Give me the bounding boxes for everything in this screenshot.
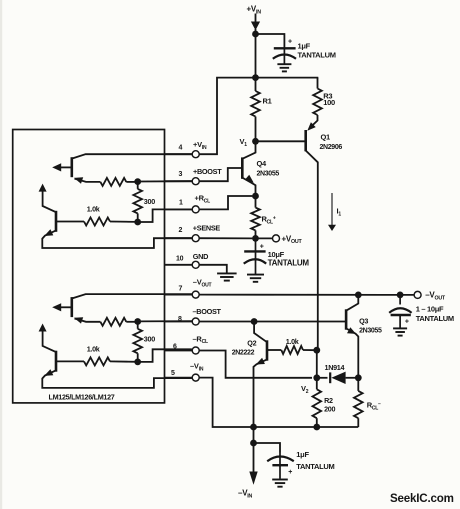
wire Q2 emitter down (254, 359, 268, 427)
junction -VIN cap branch (250, 440, 257, 447)
svg-text:200: 200 (324, 404, 335, 413)
label 300 (positive half) (144, 197, 155, 206)
svg-text:2N3055: 2N3055 (359, 327, 382, 334)
svg-text:SeekIC.com: SeekIC.com (390, 492, 454, 505)
transistor internal bar (positive half) (71, 157, 74, 177)
ground below C3 (393, 328, 407, 335)
ground below C1 (277, 64, 291, 71)
svg-text:Q2: Q2 (247, 339, 256, 348)
svg-text:1μF: 1μF (296, 450, 309, 459)
junction bottom rail Q2 emitter (250, 424, 257, 431)
junction V1 node (252, 138, 259, 145)
wire pin 2 to +VOUT node (200, 237, 253, 239)
transistor Q4 2N3055 base bar (241, 157, 244, 178)
label Q4 (257, 159, 268, 168)
svg-text:1.0k: 1.0k (87, 344, 100, 353)
svg-text:1μF: 1μF (298, 41, 311, 50)
junction 300 top (negative half) (134, 318, 141, 325)
label Q4 type 2N3055 (257, 171, 280, 178)
wire node to boost pin (positive half) (138, 180, 192, 182)
wire node to RCL pin (negative half) (138, 349, 192, 362)
label C1 TANTALUM (298, 50, 336, 59)
capacitor C4 1uF tantalum (267, 453, 294, 479)
svg-text:GND: GND (193, 252, 208, 261)
wire internal emitter with arrow (negative half) (74, 317, 100, 323)
wire node to boost pin (negative half) (138, 320, 192, 322)
wire +VIN lead (255, 14, 257, 23)
label C3 TANTALUM (416, 314, 454, 323)
svg-text:+SENSE: +SENSE (193, 224, 221, 233)
node +VIN supply label (247, 5, 262, 16)
svg-text:1: 1 (179, 200, 183, 207)
node V1 label (240, 137, 248, 148)
resistor 1.0k internal (negative half) (56, 357, 138, 365)
label 1N914 (325, 363, 345, 372)
arrow -VIN pointing down (249, 472, 257, 485)
junction Q2 collector on -BOOST line (251, 318, 258, 325)
svg-text:TANTALUM: TANTALUM (268, 258, 310, 267)
svg-text:1 – 10μF: 1 – 10μF (416, 305, 444, 314)
svg-text:2N3055: 2N3055 (257, 171, 280, 178)
svg-text:10: 10 (176, 255, 184, 262)
label C4 TANTALUM (296, 462, 334, 471)
junction V2 node (313, 374, 320, 381)
label -VOUT (425, 291, 446, 302)
wire pin 6 to V2 node (199, 351, 312, 378)
wire Q4 emitter (242, 178, 255, 196)
wire Q3 collector (346, 295, 358, 311)
wire main vertical to rail node (255, 34, 257, 78)
pin 1 +RCL (165, 194, 211, 213)
resistor internal emitter (negative half) (100, 318, 137, 326)
svg-text:100: 100 (323, 98, 335, 107)
wire pin 5 to bottom rail (199, 378, 358, 427)
arrow internal base (positive half) (52, 163, 72, 171)
capacitor C4 plus sign (288, 469, 292, 476)
wire pin 1 to Q4 emitter node (200, 196, 253, 209)
transistor internal bar (negative half) (71, 297, 74, 317)
svg-text:R1: R1 (263, 97, 272, 106)
svg-text:3: 3 (179, 171, 183, 178)
arrow Q4 emitter NPN (245, 175, 254, 183)
pin 2 +SENSE (165, 224, 221, 242)
terminal +VOUT circle (273, 235, 280, 242)
wire pin 10 to ground (200, 265, 227, 273)
wire rail node to pin 4 turn (200, 78, 256, 155)
wire pin 8 -BOOST to Q3 base (200, 321, 347, 323)
junction +VIN rail node (252, 74, 259, 81)
capacitor C2 plus sign (260, 244, 264, 251)
pin 8 -BOOST (165, 307, 222, 325)
pin 6 -RCL (165, 334, 208, 354)
wire +VIN arrow to top node (255, 29, 257, 34)
label Q3 (359, 317, 368, 326)
junction +VOUT node (252, 235, 259, 242)
junction Q1 collector 1.0k node (313, 347, 320, 354)
label Q1 type 2N2906 (320, 144, 343, 151)
label R1 (263, 97, 272, 106)
capacitor C2 10uF tantalum (244, 238, 267, 274)
label 1.0k internal (negative half) (87, 344, 100, 353)
label 1.0k Q2 (286, 337, 299, 346)
junction 300 top (positive half) (134, 178, 141, 185)
wire pin 7 -VOUT rail (200, 294, 414, 296)
resistor 1.0k Q2 base (267, 346, 317, 354)
transistor Q1 2N2906 base bar (304, 130, 307, 151)
svg-text:300: 300 (144, 197, 155, 206)
svg-text:TANTALUM: TANTALUM (296, 462, 334, 471)
junction output capacitor on -VOUT rail (397, 292, 404, 299)
svg-text:Q3: Q3 (359, 317, 368, 326)
label C4 value 1uF (296, 450, 309, 459)
svg-text:4: 4 (179, 144, 183, 151)
wire internal collector to pin (negative half) (72, 294, 192, 298)
resistor 1.0k internal (positive half) (56, 218, 138, 226)
svg-text:+: + (288, 469, 292, 476)
junction Q3 collector on -VOUT rail (355, 292, 362, 299)
wire R3 to Q1 emitter (310, 115, 317, 127)
transistor Q2 2N2222 base bar (266, 340, 269, 360)
capacitor C3 1-10uF tantalum (389, 295, 411, 328)
wire Q1 collector line to V2 (316, 350, 318, 378)
label Q1 (321, 133, 331, 142)
resistor 300 (positive half) (133, 182, 142, 222)
resistor RCL- (354, 378, 363, 427)
wire node to RCL pin (positive half) (138, 209, 192, 222)
wire internal lower emitter to sense pin (positive half) (42, 229, 192, 248)
wire internal lower collector with up arrow (positive half) (39, 184, 56, 213)
label C2 value 10uF (268, 250, 285, 259)
IC box LM125/LM126/LM127 (13, 130, 165, 403)
arrow Q1 emitter PNP (307, 122, 315, 130)
label RCL+ (262, 215, 276, 226)
capacitor C1 1uF tantalum (273, 48, 296, 64)
label R2 value 200 (324, 404, 335, 413)
wire Q4 collector to V1 (242, 141, 255, 159)
svg-text:+: + (288, 39, 292, 46)
svg-text:1.0k: 1.0k (286, 337, 299, 346)
wire top node to C1 (256, 34, 285, 49)
ground below C4 (272, 480, 288, 487)
resistor 300 (negative half) (133, 322, 142, 362)
junction 300 bottom (positive half) (134, 219, 141, 226)
label I1 (337, 207, 342, 218)
svg-text:7: 7 (179, 286, 183, 293)
label +VOUT (282, 234, 303, 245)
wire internal collector to pin (positive half) (72, 154, 192, 158)
svg-text:1.0k: 1.0k (87, 205, 100, 214)
arrow +VIN pointing down (251, 22, 260, 31)
svg-text:2N2222: 2N2222 (232, 350, 255, 357)
svg-text:+: + (405, 319, 409, 326)
label C2 TANTALUM (268, 258, 310, 267)
svg-text:+: + (260, 244, 264, 251)
label C1 value 1uF (298, 41, 311, 50)
wire rail node to R3 top (256, 77, 319, 79)
wire internal emitter with arrow (positive half) (74, 177, 100, 183)
wire branch to C4 (254, 443, 281, 453)
transistor Q3 2N3055 base bar (345, 309, 348, 329)
svg-text:LM125/LM126/LM127: LM125/LM126/LM127 (49, 393, 115, 402)
label Q2 type 2N2222 (232, 350, 255, 357)
resistor R1 (251, 78, 260, 142)
junction Q4 emitter node (252, 193, 259, 200)
wire Q2 collector (254, 322, 267, 343)
pin 10 GND (165, 252, 209, 268)
arrow Q3 emitter NPN (347, 327, 356, 334)
resistor R3 (313, 78, 322, 115)
transistor internal lower bar (positive half) (55, 211, 58, 232)
label R3 value 100 (323, 98, 335, 107)
resistor RCL+ (251, 196, 260, 238)
wire -VIN stem (253, 427, 255, 473)
label 300 (negative half) (144, 334, 155, 343)
label R2 (324, 396, 333, 405)
label V2 (301, 384, 309, 395)
resistor internal emitter (positive half) (100, 178, 137, 186)
diode CR1 1N914 (317, 372, 359, 384)
current arrow I1 line (331, 193, 333, 226)
pin 5 -VIN (165, 362, 204, 382)
junction 300 bottom (negative half) (134, 359, 141, 366)
pin 3 +BOOST (165, 167, 223, 185)
svg-text:+BOOST: +BOOST (193, 167, 222, 176)
watermark SeekIC.com (390, 492, 454, 505)
ground at GND pin (217, 273, 237, 280)
label Q3 type 2N3055 (359, 327, 382, 334)
transistor internal lower bar (negative half) (55, 351, 58, 372)
svg-text:300: 300 (144, 334, 155, 343)
arrow Q2 emitter NPN (256, 358, 265, 365)
svg-text:1N914: 1N914 (325, 363, 345, 372)
wire internal lower collector with up arrow (negative half) (39, 324, 56, 353)
node -VIN label (238, 489, 253, 500)
wire V1 to Q1 base (256, 140, 306, 142)
current arrow I1 head (328, 225, 336, 231)
pin 7 -VOUT (165, 278, 212, 299)
junction diode anode node (355, 374, 362, 381)
svg-text:TANTALUM: TANTALUM (416, 314, 454, 323)
label C3 value 1-10uF (416, 305, 444, 314)
svg-text:Q1: Q1 (321, 133, 331, 142)
svg-text:2N2906: 2N2906 (320, 144, 343, 151)
capacitor C3 plus sign (405, 319, 409, 326)
wire Q3 emitter down (346, 328, 358, 377)
wire +VOUT node to terminal (256, 237, 273, 239)
pin 4 +VIN (165, 140, 208, 158)
svg-text:Q4: Q4 (257, 159, 268, 168)
svg-text:TANTALUM: TANTALUM (298, 50, 336, 59)
svg-text:–BOOST: –BOOST (193, 307, 222, 316)
junction top node (252, 31, 259, 38)
wire Q1 collector (306, 151, 318, 351)
wire internal lower emitter to sense pin (negative half) (42, 369, 192, 388)
label RCL- (367, 401, 381, 412)
arrow internal base (negative half) (52, 303, 72, 311)
resistor R2 200 (313, 378, 322, 427)
label Q2 (247, 339, 256, 348)
svg-text:5: 5 (171, 370, 175, 377)
wire pin 3 to Q4 base (200, 168, 243, 181)
junction bottom rail R2 (313, 424, 320, 431)
capacitor C1 1uF plus sign (288, 39, 292, 46)
svg-text:2: 2 (179, 227, 183, 234)
label R3 (323, 91, 332, 100)
terminal -VOUT circle (414, 291, 421, 298)
ground below C2 (247, 275, 264, 282)
label LM125/LM126/LM127 (49, 393, 115, 402)
label 1.0k internal (positive half) (87, 205, 100, 214)
